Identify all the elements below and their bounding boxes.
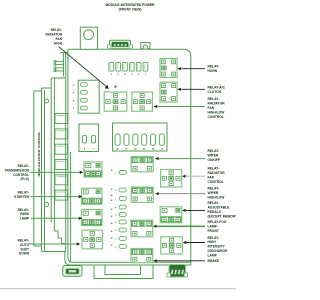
svg-text:HORN: HORN [208, 69, 218, 73]
svg-text:RADIATOR: RADIATOR [208, 102, 226, 106]
svg-text:21: 21 [125, 148, 128, 150]
svg-text:3: 3 [117, 74, 119, 76]
mini fuse capsule column [119, 171, 126, 175]
svg-text:BRAKE: BRAKE [208, 259, 221, 263]
svg-text:4: 4 [124, 73, 126, 76]
svg-text:PARK: PARK [20, 212, 29, 216]
svg-text:FAN: FAN [208, 175, 215, 179]
bottom recess inner U [105, 265, 141, 275]
svg-text:7: 7 [93, 148, 95, 150]
fuse row F1-F6 top [109, 62, 114, 71]
svg-text:M: M [111, 216, 113, 218]
svg-text:FRONT: FRONT [208, 229, 219, 233]
svg-text:ON/OFF: ON/OFF [208, 158, 220, 162]
svg-text:M: M [111, 245, 113, 247]
svg-text:25: 25 [161, 148, 164, 150]
relay J park lamp target [82, 210, 103, 226]
left connector cavity pins [55, 114, 68, 124]
floor line [0, 288, 236, 290]
svg-text:SHUT: SHUT [20, 247, 29, 251]
svg-text:HIGH: HIGH [208, 240, 217, 244]
svg-text:DISCHARGE: DISCHARGE [208, 249, 229, 253]
svg-text:RELAY-: RELAY- [51, 28, 62, 32]
svg-text:PEDALS: PEDALS [208, 210, 222, 214]
svg-text:RELAY-: RELAY- [18, 208, 29, 212]
svg-text:20: 20 [116, 148, 119, 150]
svg-text:MODULE-FRONT CONTROL: MODULE-FRONT CONTROL [37, 131, 41, 176]
relay fog lamp target [131, 220, 153, 237]
svg-text:RELAY-: RELAY- [18, 191, 29, 195]
relay U-horn [160, 58, 177, 77]
svg-text:RELAY-: RELAY- [208, 166, 220, 170]
leader relay-radiator fan high/low control [158, 106, 206, 108]
leader relay-transmission control [31, 171, 80, 173]
svg-text:5: 5 [131, 74, 133, 76]
relay K auto shutdown target [82, 230, 102, 249]
svg-text:RELAY-: RELAY- [208, 149, 220, 153]
svg-text:M: M [111, 223, 113, 225]
svg-text:RELAY-: RELAY- [18, 164, 29, 168]
svg-text:2: 2 [73, 85, 75, 87]
svg-text:LAMP: LAMP [208, 253, 218, 257]
leader relay-a/c clutch [182, 88, 206, 90]
svg-text:M: M [111, 195, 113, 197]
svg-text:HIGH: HIGH [54, 41, 63, 45]
leader relay-HID lamp [187, 242, 206, 244]
svg-text:RELAY-A/C: RELAY-A/C [208, 85, 226, 89]
svg-text:M: M [111, 209, 113, 211]
svg-text:(FLG): (FLG) [21, 177, 30, 181]
relay U-ac-clutch [160, 82, 177, 102]
svg-text:M: M [111, 170, 113, 172]
svg-text:RADIATOR: RADIATOR [208, 171, 226, 175]
relay G adjustable pedals target [160, 207, 182, 223]
main box inner bottom line [73, 261, 191, 263]
relay I starter target [82, 188, 103, 204]
interior liner wall lower-left [70, 152, 72, 262]
svg-text:22: 22 [134, 148, 137, 150]
svg-text:WIPER: WIPER [208, 191, 219, 195]
svg-text:HIGH/LOW: HIGH/LOW [208, 195, 226, 199]
leader relay-wiper high/low [159, 193, 205, 195]
fuse box 6-slot center [113, 123, 168, 151]
leader diagonal radiator fan high [59, 47, 108, 88]
svg-text:TRANSMISSION: TRANSMISSION [5, 168, 30, 172]
svg-text:AUTO: AUTO [20, 243, 29, 247]
svg-text:RELAY-: RELAY- [208, 97, 220, 101]
relay H HID lamp target [161, 237, 183, 254]
svg-text:WIPER: WIPER [208, 154, 219, 158]
leader relay-fog lamp front [157, 225, 205, 227]
svg-text:M: M [111, 238, 113, 240]
svg-text:CONTROL: CONTROL [208, 180, 224, 184]
svg-text:5: 5 [73, 108, 75, 110]
svg-text:23: 23 [143, 148, 146, 150]
svg-text:CLUTCH: CLUTCH [208, 90, 222, 94]
leader relay-park lamp [31, 217, 79, 219]
svg-text:4: 4 [73, 99, 75, 102]
svg-text:STARTER: STARTER [14, 195, 30, 199]
leader relay-radiator fan control [186, 175, 205, 177]
bottom connector right (dark) [169, 265, 186, 278]
left wall step lines [51, 77, 65, 79]
svg-text:FAN: FAN [56, 37, 63, 41]
svg-text:a: a [115, 215, 117, 217]
top edge connector C1 (dark) [110, 40, 131, 49]
bottom recess outer U [94, 265, 153, 279]
leader brake [157, 260, 205, 262]
relay D wiper on/off target [131, 157, 153, 172]
svg-text:2: 2 [111, 74, 113, 76]
top edge small box with arch [141, 43, 150, 49]
fuse box main outline [68, 49, 191, 265]
fuse block brake target [131, 249, 153, 263]
svg-text:a: a [115, 190, 117, 192]
svg-text:MODULE-INTEGRATED POWER: MODULE-INTEGRATED POWER [106, 3, 155, 7]
fuse cartridge box left (4 slots) [78, 80, 99, 113]
relay E wiper high/low target [131, 187, 153, 202]
svg-text:(EXCEPT MEMORY): (EXCEPT MEMORY) [208, 215, 237, 219]
svg-text:a: a [115, 207, 117, 209]
svg-text:a: a [115, 230, 117, 232]
leader relay-starter [31, 196, 79, 198]
top-left bracket connector [62, 52, 64, 77]
left wall bottom steps [34, 245, 42, 247]
svg-text:a: a [115, 239, 117, 241]
svg-text:M: M [111, 189, 113, 191]
fuse block T1 transmission control target [84, 162, 102, 177]
svg-text:a: a [115, 222, 117, 224]
relay A radiator fan high [104, 92, 127, 111]
main box inner left wall [67, 49, 69, 251]
relay B radiator fan high/low control [132, 92, 153, 111]
relay F radiator fan control target [161, 170, 182, 188]
svg-text:3: 3 [73, 93, 75, 95]
svg-text:6: 6 [84, 148, 86, 150]
svg-text:ADJUSTABLE: ADJUSTABLE [208, 206, 231, 210]
svg-text:a: a [115, 199, 117, 201]
svg-text:RELAY-: RELAY- [208, 186, 220, 190]
fuse box 2-slot [79, 124, 99, 152]
svg-text:RELAY-: RELAY- [208, 236, 220, 240]
leader relay-horn [182, 68, 206, 70]
mounting hole circle upper [45, 99, 49, 103]
svg-text:24: 24 [152, 147, 155, 150]
leader relay-adjustable pedals [186, 209, 205, 211]
svg-text:7: 7 [145, 74, 147, 76]
svg-text:M: M [111, 231, 113, 233]
svg-text:LAMP-: LAMP- [208, 224, 218, 228]
svg-text:INTENSITY: INTENSITY [208, 245, 226, 249]
svg-text:RELAY-: RELAY- [208, 65, 220, 69]
svg-text:CONTROL: CONTROL [208, 115, 224, 119]
svg-text:HIGH/LOW: HIGH/LOW [208, 111, 226, 115]
svg-text:RELAY-: RELAY- [18, 239, 29, 243]
svg-text:a: a [115, 247, 117, 249]
svg-text:LAMP: LAMP [20, 217, 30, 221]
svg-text:RELAY-FOG: RELAY-FOG [208, 220, 227, 224]
leader relay-wiper on/off [159, 158, 205, 160]
leader relay-auto shut down [29, 243, 77, 245]
mounting hole circle lower [45, 203, 49, 207]
svg-text:RELAY-: RELAY- [208, 201, 220, 205]
svg-text:6: 6 [138, 74, 140, 76]
svg-text:CONTROL: CONTROL [13, 173, 29, 177]
svg-text:RADIATOR: RADIATOR [45, 33, 62, 37]
svg-text:(FRONT VIEW): (FRONT VIEW) [119, 8, 142, 12]
svg-text:M: M [111, 200, 113, 202]
svg-text:FAN: FAN [208, 106, 215, 110]
bottom connector left (light) [63, 266, 82, 277]
svg-text:DOWN: DOWN [19, 252, 30, 256]
node dot above relay A [114, 86, 116, 88]
mounting post with circle [80, 27, 97, 49]
svg-text:a: a [115, 172, 117, 174]
